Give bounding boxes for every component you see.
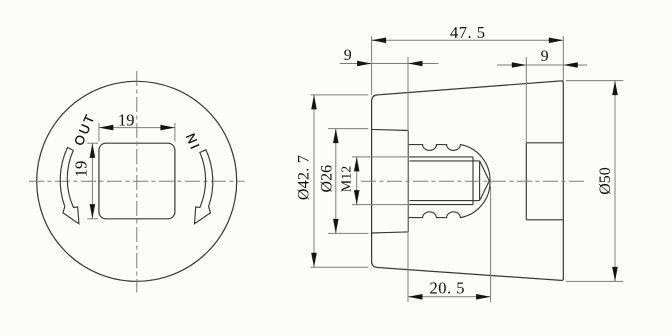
dim 19 horizontal: arrowheads (99, 125, 114, 131)
svg-text:IN: IN (182, 129, 203, 151)
circle: socket outer silhouette (37, 81, 237, 281)
dim 9 left: extension line (407, 57, 409, 302)
dim 20.5: dimension line (408, 296, 491, 298)
svg-text:19: 19 (118, 111, 135, 130)
dim 9 left: dimension line tails (340, 63, 438, 65)
dim 19 horizontal: dimension line (99, 127, 175, 129)
svg-text:Ø42. 7: Ø42. 7 (296, 155, 313, 200)
dim 19 vertical: dimension line (91, 143, 93, 218)
dim 20.5: arrowheads (408, 294, 423, 300)
curved arrow left (counter-clockwise, OUT) (60, 148, 79, 224)
svg-text:20. 5: 20. 5 (429, 278, 465, 297)
thread end cone (480, 161, 490, 201)
dim 9 left: arrowheads (outside) (357, 61, 372, 67)
svg-text:19: 19 (72, 161, 91, 178)
dim M12: extension lines (352, 156, 410, 158)
threaded hole M12: major diameter rect (410, 156, 474, 158)
dim 47.5: extension lines (overlap faces, drawn up) (371, 36, 373, 95)
dim Ø50: dimension line (614, 81, 616, 282)
svg-text:47. 5: 47. 5 (450, 23, 486, 42)
dim Ø42.7: extension lines (311, 94, 369, 96)
dim 9 right: dimension line (497, 64, 587, 66)
dim Ø50: arrowheads (612, 81, 618, 96)
dim Ø26: arrowheads (333, 129, 339, 144)
central boss with grooves and dome tip (408, 145, 490, 218)
dim 47.5: dimension line (372, 39, 564, 41)
centerline right view (361, 180, 585, 182)
dim 19 horizontal: extension lines (98, 123, 100, 142)
threaded hole M12: minor diameter lines (410, 160, 480, 162)
dim 9 right: extension line (525, 57, 527, 143)
centerline vertical (136, 71, 138, 293)
centerline horizontal (29, 180, 245, 182)
dim 19 vertical: extension lines (87, 142, 98, 144)
svg-text:OUT: OUT (71, 111, 98, 148)
dim Ø42.7: dimension line (313, 95, 315, 267)
dim Ø42.7: arrowheads (311, 95, 317, 110)
body outline (372, 81, 564, 281)
dim Ø50: extension lines (566, 80, 623, 82)
svg-text:Ø50: Ø50 (597, 167, 614, 195)
svg-text:Ø26: Ø26 (319, 165, 336, 193)
curved arrow right (clockwise, IN) (195, 150, 213, 224)
dim Ø26: extension lines (328, 128, 368, 130)
dim Ø26: dimension line (335, 129, 337, 234)
dim 47.5: arrowheads (372, 38, 387, 44)
dim 9 right: arrowheads (outside) (512, 62, 527, 68)
dim 20.5: extension lines (407, 270, 409, 302)
dim M12: arrowheads (354, 157, 360, 172)
svg-text:M12: M12 (340, 166, 355, 192)
right recess: square drive hole in section (526, 142, 563, 144)
square drive hole 19x19 (99, 143, 175, 219)
dim 19 vertical: arrowheads (90, 143, 96, 158)
dim M12: dimension line (356, 157, 358, 205)
svg-text:9: 9 (344, 47, 352, 64)
recess bottom wall (407, 131, 409, 232)
svg-text:9: 9 (541, 48, 549, 65)
left recess (Ø26) taper lines (372, 129, 408, 130)
